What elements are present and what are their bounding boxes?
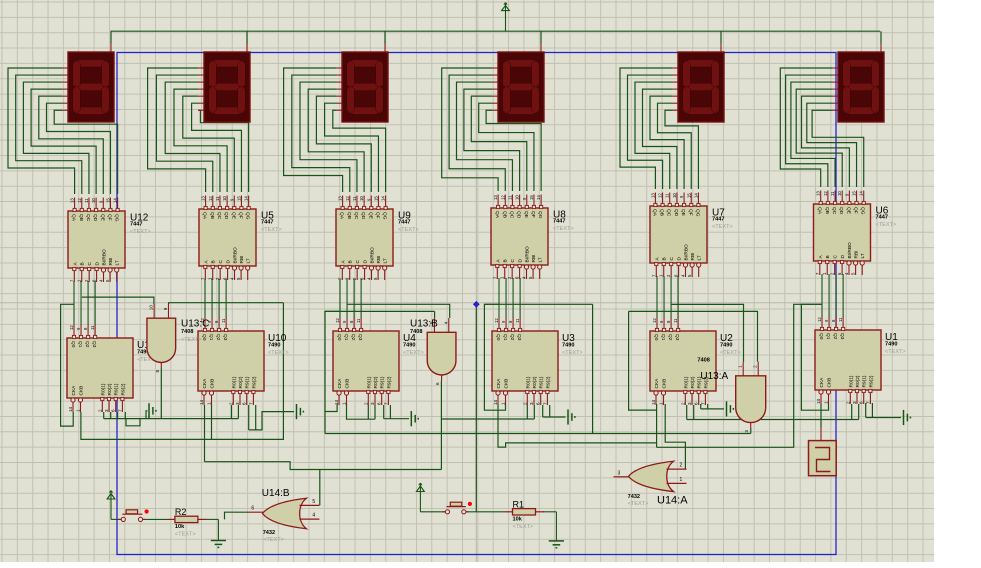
svg-text:QA: QA (817, 207, 823, 215)
svg-text:R1: R1 (513, 499, 525, 509)
svg-text:14: 14 (816, 398, 821, 404)
svg-text:QE: QE (230, 212, 236, 219)
svg-text:7: 7 (383, 402, 388, 405)
svg-text:7: 7 (117, 409, 122, 412)
svg-text:10: 10 (837, 191, 842, 196)
svg-text:10: 10 (515, 195, 520, 200)
svg-text:BI/RBO: BI/RBO (847, 242, 853, 259)
svg-text:13: 13 (816, 191, 821, 196)
svg-text:10k: 10k (513, 516, 523, 522)
svg-text:R9(2): R9(2) (545, 376, 551, 388)
svg-text:11: 11 (84, 198, 89, 203)
svg-text:QA: QA (651, 209, 657, 217)
svg-text:B: B (348, 260, 354, 263)
svg-text:B: B (80, 262, 86, 265)
svg-text:10: 10 (91, 198, 96, 203)
svg-text:R0(1): R0(1) (683, 376, 689, 388)
svg-text:QB: QB (501, 211, 507, 218)
svg-text:3: 3 (687, 402, 692, 405)
svg-text:QC: QC (831, 207, 837, 215)
svg-text:11: 11 (90, 325, 95, 330)
svg-text:14: 14 (113, 198, 118, 203)
svg-text:QG: QG (860, 207, 866, 215)
svg-text:QB: QB (346, 212, 352, 219)
svg-text:1: 1 (659, 402, 664, 405)
svg-text:R0(1): R0(1) (525, 376, 531, 388)
svg-text:B: B (211, 260, 217, 263)
svg-text:7: 7 (865, 401, 870, 404)
svg-text:3: 3 (235, 402, 240, 405)
svg-text:QE: QE (845, 207, 851, 214)
svg-text:C: C (669, 257, 675, 261)
svg-text:QF: QF (687, 209, 693, 216)
svg-text:<TEXT>: <TEXT> (876, 222, 897, 228)
svg-text:R9(2): R9(2) (386, 376, 392, 388)
svg-text:LT: LT (115, 260, 121, 265)
svg-text:R0(2): R0(2) (107, 383, 113, 395)
svg-text:11: 11 (665, 193, 670, 198)
svg-text:2: 2 (228, 402, 233, 405)
svg-text:<TEXT>: <TEXT> (712, 224, 733, 230)
svg-text:12: 12 (345, 196, 350, 201)
svg-text:QC: QC (666, 209, 672, 217)
svg-text:D: D (226, 260, 232, 264)
svg-text:R9(1): R9(1) (114, 383, 120, 395)
svg-text:4: 4 (443, 321, 448, 324)
svg-text:Q1: Q1 (77, 341, 83, 348)
svg-text:<TEXT>: <TEXT> (562, 350, 583, 356)
svg-text:QD: QD (360, 212, 366, 220)
svg-text:14: 14 (651, 399, 656, 405)
svg-text:7408: 7408 (181, 329, 193, 335)
svg-text:R0(2): R0(2) (855, 375, 861, 387)
svg-text:D: D (840, 255, 846, 259)
svg-text:13: 13 (338, 196, 343, 201)
svg-text:Q3: Q3 (91, 341, 97, 348)
svg-text:6: 6 (251, 506, 254, 512)
svg-text:D: D (363, 260, 369, 264)
svg-text:8: 8 (155, 370, 160, 373)
svg-text:BI/RBO: BI/RBO (370, 247, 376, 264)
svg-text:<TEXT>: <TEXT> (628, 501, 649, 507)
svg-text:R0(1): R0(1) (100, 383, 106, 395)
svg-text:QC: QC (85, 214, 91, 222)
svg-text:C: C (355, 260, 361, 264)
svg-text:R9(1): R9(1) (245, 376, 251, 388)
svg-text:Q2: Q2 (215, 334, 221, 341)
svg-text:QD: QD (516, 211, 522, 219)
svg-text:R9(2): R9(2) (868, 375, 874, 387)
svg-text:R0(2): R0(2) (532, 376, 538, 388)
svg-text:2: 2 (680, 402, 685, 405)
svg-text:11: 11 (507, 195, 512, 200)
svg-text:<TEXT>: <TEXT> (268, 350, 289, 356)
svg-text:10: 10 (359, 196, 364, 201)
svg-text:13: 13 (493, 195, 498, 200)
svg-text:11: 11 (838, 317, 843, 322)
svg-text:1: 1 (738, 365, 743, 368)
svg-text:7447: 7447 (261, 220, 273, 226)
svg-text:QE: QE (367, 212, 373, 219)
svg-text:Q2: Q2 (350, 334, 356, 341)
svg-text:B: B (662, 257, 668, 260)
svg-text:6: 6 (536, 402, 541, 405)
svg-text:<TEXT>: <TEXT> (403, 350, 424, 356)
svg-text:D: D (95, 262, 101, 266)
svg-text:BI/RBO: BI/RBO (525, 246, 531, 263)
svg-text:R9(2): R9(2) (251, 376, 257, 388)
svg-text:CKA: CKA (496, 378, 502, 389)
svg-text:RBI: RBI (531, 255, 537, 263)
svg-text:7: 7 (700, 402, 705, 405)
svg-text:15: 15 (373, 196, 378, 201)
svg-text:QF: QF (374, 212, 380, 219)
svg-text:QE: QE (680, 209, 686, 216)
svg-text:14: 14 (68, 406, 73, 412)
svg-text:Q0: Q0 (201, 334, 207, 341)
svg-text:11: 11 (215, 196, 220, 201)
svg-text:Q1: Q1 (208, 334, 214, 341)
svg-text:7: 7 (542, 402, 547, 405)
svg-text:QG: QG (245, 212, 251, 220)
svg-text:12: 12 (494, 318, 499, 323)
svg-text:15: 15 (105, 198, 110, 203)
svg-text:D: D (518, 259, 524, 263)
svg-text:7490: 7490 (885, 342, 897, 348)
svg-text:QF: QF (106, 214, 112, 221)
svg-text:3: 3 (744, 430, 749, 433)
svg-text:6: 6 (377, 402, 382, 405)
svg-text:QA: QA (339, 212, 345, 220)
svg-text:QE: QE (99, 214, 105, 221)
svg-text:U14:A: U14:A (657, 495, 688, 507)
svg-text:R0(1): R0(1) (231, 376, 237, 388)
svg-text:<TEXT>: <TEXT> (261, 227, 282, 233)
svg-text:14: 14 (859, 191, 864, 196)
svg-text:1: 1 (501, 402, 506, 405)
svg-text:2: 2 (680, 463, 683, 469)
svg-text:C: C (833, 255, 839, 259)
svg-text:QC: QC (216, 212, 222, 220)
svg-text:7490: 7490 (720, 343, 732, 349)
svg-text:1: 1 (207, 402, 212, 405)
svg-text:12: 12 (652, 318, 657, 323)
svg-text:14: 14 (493, 399, 498, 405)
svg-text:RBI: RBI (239, 256, 245, 264)
svg-text:7490: 7490 (268, 343, 280, 349)
svg-text:7447: 7447 (398, 220, 410, 226)
svg-text:2: 2 (753, 365, 758, 368)
svg-text:CKA: CKA (202, 378, 208, 389)
svg-text:Q2: Q2 (509, 334, 515, 341)
svg-text:4: 4 (312, 513, 315, 519)
svg-text:12: 12 (335, 318, 340, 323)
svg-text:11: 11 (515, 318, 520, 323)
svg-text:R0(1): R0(1) (366, 376, 372, 388)
svg-text:10: 10 (149, 305, 154, 311)
svg-text:QC: QC (508, 211, 514, 219)
svg-text:7408: 7408 (410, 329, 422, 335)
svg-text:1: 1 (76, 409, 81, 412)
svg-text:14: 14 (536, 195, 541, 200)
svg-text:U13:B: U13:B (410, 319, 438, 330)
svg-text:Q3: Q3 (222, 334, 228, 341)
svg-text:CKB: CKB (827, 378, 833, 388)
svg-text:B: B (825, 255, 831, 258)
svg-text:14: 14 (693, 193, 698, 198)
svg-text:7490: 7490 (403, 343, 415, 349)
svg-text:2: 2 (845, 401, 850, 404)
svg-text:12: 12 (817, 317, 822, 322)
svg-text:3: 3 (852, 401, 857, 404)
svg-text:QB: QB (659, 209, 665, 216)
svg-text:QG: QG (537, 211, 543, 219)
svg-text:R0(2): R0(2) (238, 376, 244, 388)
svg-text:3: 3 (529, 402, 534, 405)
svg-text:QA: QA (71, 214, 77, 222)
svg-text:U14:B: U14:B (262, 488, 290, 499)
svg-text:R9(1): R9(1) (862, 375, 868, 387)
svg-text:Q3: Q3 (516, 334, 522, 341)
svg-text:QB: QB (824, 207, 830, 214)
svg-text:Q3: Q3 (839, 333, 845, 340)
svg-text:13: 13 (650, 193, 655, 198)
svg-text:R0(2): R0(2) (373, 376, 379, 388)
svg-text:1: 1 (680, 477, 683, 483)
svg-text:7447: 7447 (553, 219, 565, 225)
svg-text:10: 10 (672, 193, 677, 198)
svg-text:Q1: Q1 (660, 334, 666, 341)
svg-text:6: 6 (435, 382, 440, 385)
svg-text:7432: 7432 (263, 530, 275, 536)
svg-text:U13:A: U13:A (700, 371, 728, 382)
svg-text:R9(2): R9(2) (120, 383, 126, 395)
svg-text:QF: QF (530, 211, 536, 218)
svg-text:Q0: Q0 (818, 333, 824, 340)
svg-text:7447: 7447 (876, 215, 888, 221)
svg-text:LT: LT (697, 255, 703, 260)
svg-text:CKB: CKB (345, 379, 351, 389)
svg-text:U13:C: U13:C (181, 319, 209, 330)
svg-text:C: C (510, 259, 516, 263)
svg-text:Q2: Q2 (667, 334, 673, 341)
svg-text:6: 6 (694, 402, 699, 405)
svg-text:CKA: CKA (71, 385, 77, 396)
svg-text:<TEXT>: <TEXT> (398, 227, 419, 233)
svg-text:CKB: CKB (210, 379, 216, 389)
svg-text:12: 12 (69, 325, 74, 330)
svg-text:5: 5 (312, 499, 315, 505)
svg-text:Q0: Q0 (336, 334, 342, 341)
svg-text:<TEXT>: <TEXT> (175, 531, 196, 537)
svg-text:3: 3 (104, 409, 109, 412)
svg-text:CKA: CKA (654, 378, 660, 389)
svg-text:LT: LT (383, 258, 389, 263)
svg-text:Q0: Q0 (70, 341, 76, 348)
svg-text:BI/RBO: BI/RBO (102, 249, 108, 266)
svg-text:QB: QB (78, 214, 84, 221)
svg-text:<TEXT>: <TEXT> (885, 349, 906, 355)
svg-text:QD: QD (223, 212, 229, 220)
svg-text:9: 9 (163, 307, 168, 310)
svg-text:CKB: CKB (504, 379, 510, 389)
svg-text:6: 6 (859, 401, 864, 404)
svg-text:3: 3 (618, 470, 621, 476)
svg-text:RBI: RBI (854, 251, 860, 259)
svg-text:Q3: Q3 (674, 334, 680, 341)
svg-text:<TEXT>: <TEXT> (181, 337, 202, 343)
svg-text:R0(2): R0(2) (690, 376, 696, 388)
svg-text:<TEXT>: <TEXT> (263, 537, 284, 543)
svg-text:1: 1 (824, 401, 829, 404)
svg-text:15: 15 (852, 191, 857, 196)
svg-text:12: 12 (823, 191, 828, 196)
svg-text:7447: 7447 (712, 217, 724, 223)
svg-text:2: 2 (363, 402, 368, 405)
svg-text:Q0: Q0 (653, 334, 659, 341)
svg-text:7490: 7490 (562, 343, 574, 349)
svg-text:CKB: CKB (79, 386, 85, 396)
svg-text:RBI: RBI (108, 258, 114, 266)
svg-text:B: B (503, 259, 509, 262)
svg-text:<TEXT>: <TEXT> (720, 350, 741, 356)
svg-text:Q1: Q1 (502, 334, 508, 341)
svg-text:RBI: RBI (690, 253, 696, 261)
svg-text:10k: 10k (175, 524, 185, 530)
svg-text:14: 14 (334, 399, 339, 405)
svg-text:3: 3 (370, 402, 375, 405)
svg-text:QG: QG (382, 212, 388, 220)
svg-text:13: 13 (201, 196, 206, 201)
svg-text:Q0: Q0 (495, 334, 501, 341)
svg-text:13: 13 (70, 198, 75, 203)
svg-text:11: 11 (830, 191, 835, 196)
svg-text:QG: QG (114, 214, 120, 222)
svg-text:7: 7 (248, 402, 253, 405)
svg-text:Q3: Q3 (357, 334, 363, 341)
svg-text:10: 10 (222, 196, 227, 201)
svg-text:LT: LT (246, 258, 252, 263)
svg-text:15: 15 (686, 193, 691, 198)
svg-text:R9(1): R9(1) (380, 376, 386, 388)
svg-text:CKB: CKB (662, 379, 668, 389)
svg-text:14: 14 (381, 196, 386, 201)
svg-text:2: 2 (522, 402, 527, 405)
svg-text:15: 15 (529, 195, 534, 200)
svg-text:11: 11 (356, 318, 361, 323)
svg-text:14: 14 (244, 196, 249, 201)
svg-text:C: C (87, 262, 93, 266)
svg-text:6: 6 (242, 402, 247, 405)
svg-text:11: 11 (673, 318, 678, 323)
svg-text:11: 11 (221, 318, 226, 323)
svg-text:12: 12 (658, 193, 663, 198)
svg-text:12: 12 (77, 198, 82, 203)
svg-text:12: 12 (500, 195, 505, 200)
svg-text:1: 1 (342, 402, 347, 405)
svg-text:C: C (218, 260, 224, 264)
svg-text:QF: QF (237, 212, 243, 219)
svg-text:<TEXT>: <TEXT> (130, 229, 151, 235)
svg-text:11: 11 (352, 196, 357, 201)
svg-text:QA: QA (202, 212, 208, 220)
svg-text:D: D (677, 257, 683, 261)
svg-text:R2: R2 (175, 507, 187, 517)
svg-text:QC: QC (353, 212, 359, 220)
svg-text:12: 12 (208, 196, 213, 201)
svg-text:LT: LT (860, 253, 866, 258)
svg-text:BI/RBO: BI/RBO (233, 247, 239, 264)
svg-text:<TEXT>: <TEXT> (513, 524, 534, 530)
svg-text:Q1: Q1 (343, 334, 349, 341)
svg-text:14: 14 (199, 399, 204, 405)
svg-text:Q2: Q2 (832, 333, 838, 340)
svg-text:QE: QE (523, 211, 529, 218)
svg-text:7408: 7408 (697, 358, 709, 364)
svg-text:<TEXT>: <TEXT> (553, 226, 574, 232)
svg-text:BI/RBO: BI/RBO (684, 244, 690, 261)
svg-text:6: 6 (111, 409, 116, 412)
svg-text:R0(1): R0(1) (848, 375, 854, 387)
svg-text:QD: QD (838, 207, 844, 215)
svg-text:RBI: RBI (376, 256, 382, 264)
svg-text:CKA: CKA (819, 377, 825, 388)
svg-text:CKA: CKA (337, 378, 343, 389)
svg-text:QA: QA (494, 211, 500, 219)
svg-text:7432: 7432 (628, 494, 640, 500)
svg-text:7447: 7447 (130, 222, 142, 228)
svg-text:15: 15 (236, 196, 241, 201)
svg-text:2: 2 (97, 409, 102, 412)
svg-text:QD: QD (92, 214, 98, 222)
svg-text:Q1: Q1 (825, 333, 831, 340)
svg-text:QB: QB (209, 212, 215, 219)
svg-text:QG: QG (694, 209, 700, 217)
svg-text:Q2: Q2 (84, 341, 90, 348)
svg-text:R9(1): R9(1) (539, 376, 545, 388)
svg-text:QD: QD (673, 209, 679, 217)
svg-text:QF: QF (853, 207, 859, 214)
svg-text:LT: LT (538, 257, 544, 262)
